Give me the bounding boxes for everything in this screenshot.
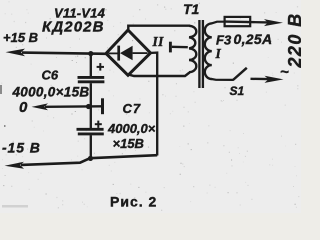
node junction C7 / -15V bbox=[88, 156, 93, 161]
winding II centre tap wire bbox=[172, 46, 188, 49]
transformer core bbox=[198, 20, 200, 88]
fuse F3 body bbox=[225, 17, 251, 26]
capacitor C7 bbox=[77, 107, 104, 159]
switch S1 right wire bbox=[251, 78, 269, 81]
svg-text:4000,0×15В: 4000,0×15В bbox=[12, 85, 90, 100]
svg-text:С7: С7 bbox=[123, 101, 142, 116]
wire bridge top to winding II bbox=[128, 26, 190, 31]
svg-text:0: 0 bbox=[19, 99, 28, 116]
wire bridge bottom to winding II bottom bbox=[130, 73, 190, 77]
arrow mains bottom bbox=[265, 76, 284, 83]
svg-text:Рис. 2: Рис. 2 bbox=[110, 193, 157, 209]
svg-text:Т1: Т1 bbox=[183, 1, 200, 17]
diode bridge V11-V14 diamond bbox=[106, 30, 151, 75]
bridge diode symbol bbox=[109, 46, 148, 61]
arrow 0 bbox=[32, 103, 49, 110]
wire winding I to switch bbox=[212, 78, 234, 81]
svg-text:+15 В: +15 В bbox=[3, 30, 38, 45]
svg-text:S1: S1 bbox=[230, 84, 245, 98]
switch S1 blade bbox=[233, 68, 247, 80]
wire bridge minus branch bbox=[150, 53, 158, 156]
svg-text:4000,0×: 4000,0× bbox=[107, 121, 156, 136]
svg-text:220 В: 220 В bbox=[285, 12, 301, 68]
wire -15V rail bbox=[21, 155, 157, 165]
wire +15V rail bbox=[22, 53, 107, 54]
svg-text:С6: С6 bbox=[42, 67, 59, 82]
arrow -15V bbox=[5, 162, 25, 169]
capacitor C6 bbox=[78, 54, 105, 107]
node junction C6-C7 / 0 bbox=[86, 104, 91, 109]
svg-text:×15В: ×15В bbox=[113, 136, 144, 151]
transformer winding II bbox=[189, 26, 196, 72]
node junction C6 / +15V bbox=[88, 51, 93, 56]
arrow mains top bbox=[264, 19, 283, 26]
wire winding I to fuse bbox=[212, 22, 226, 24]
fuse wire to mains bbox=[225, 20, 268, 23]
svg-text:КД202В: КД202В bbox=[42, 19, 105, 36]
svg-text:~: ~ bbox=[280, 64, 289, 81]
transformer winding I bbox=[205, 23, 212, 79]
svg-text:II: II bbox=[152, 34, 165, 49]
terminal bar 0 rail bbox=[101, 98, 104, 114]
svg-text:0,25А: 0,25А bbox=[234, 31, 273, 47]
svg-text:-15 В: -15 В bbox=[2, 139, 41, 155]
centre tap terminal bar bbox=[169, 42, 172, 53]
svg-text:I: I bbox=[215, 46, 222, 61]
wire 0 rail bbox=[45, 105, 102, 108]
arrow +15V bbox=[6, 49, 26, 57]
